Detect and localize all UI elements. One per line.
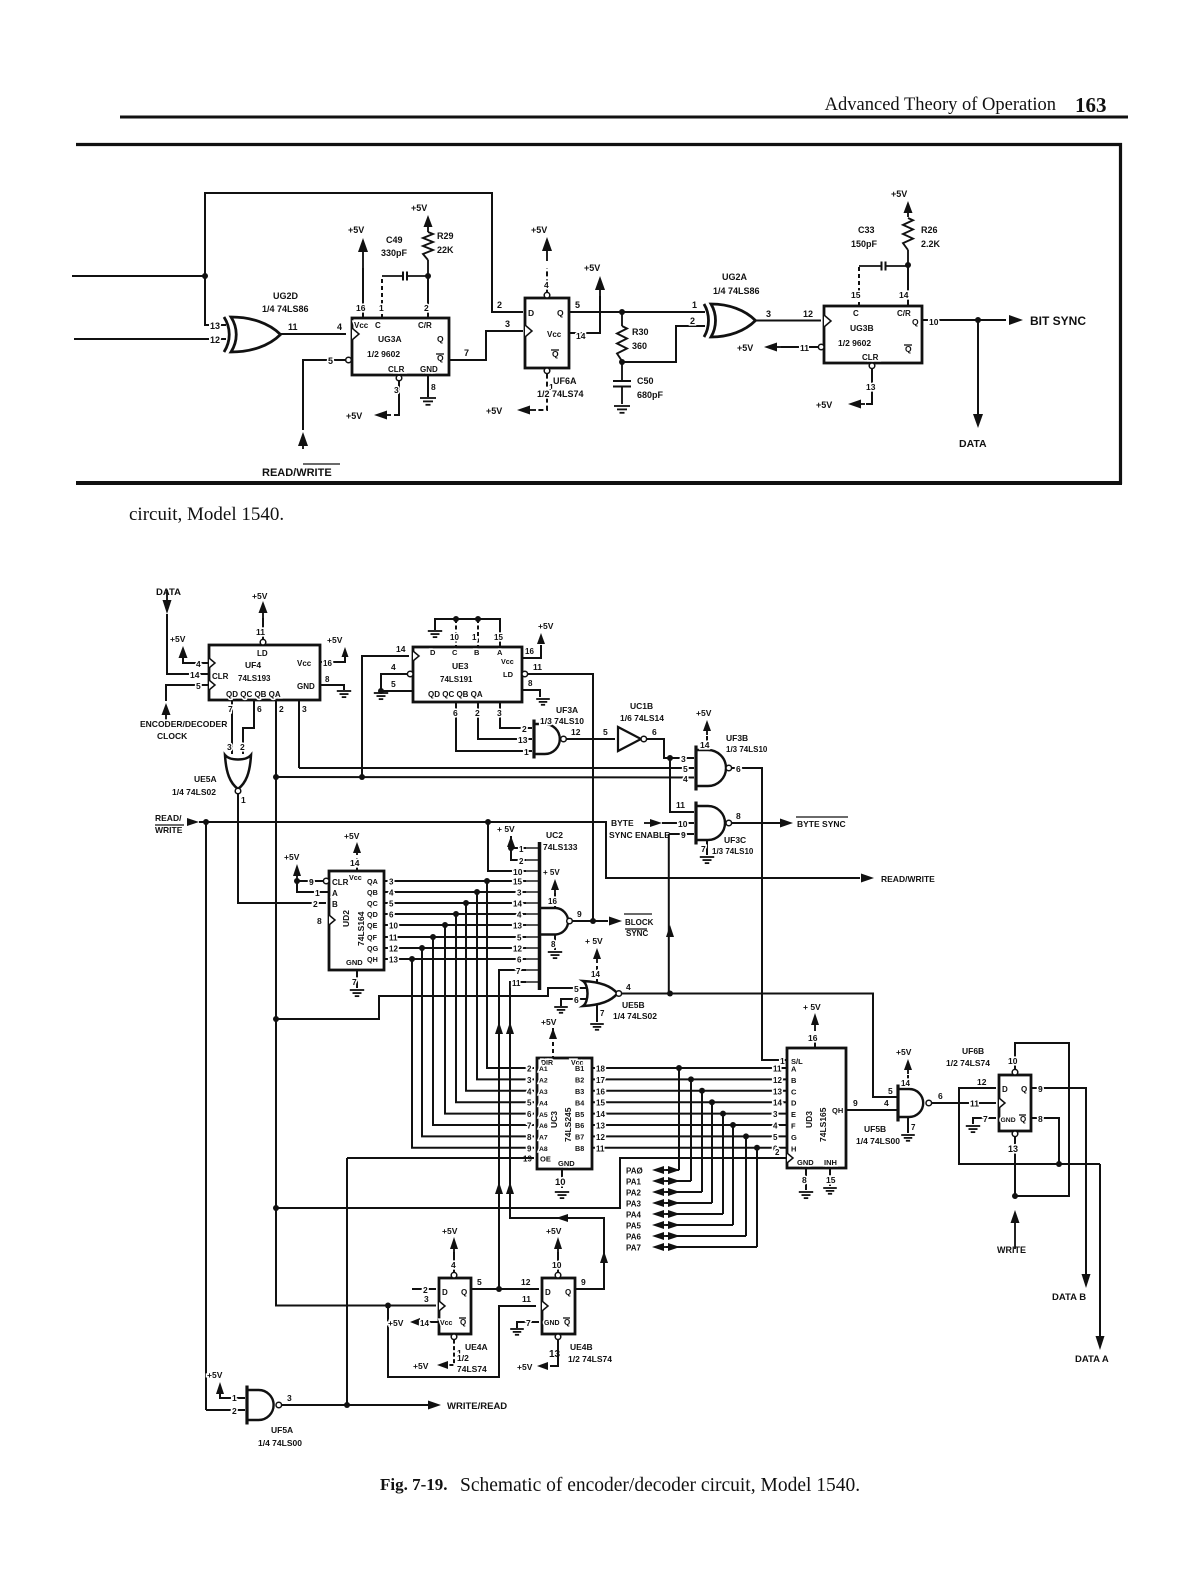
svg-text:330pF: 330pF [381,248,408,258]
svg-text:+5V: +5V [816,400,832,410]
svg-text:13: 13 [1008,1144,1018,1154]
pin 6 label UE5B [574,995,579,1005]
junction QB line [273,774,279,780]
pin 11 label UD2 QF [389,934,398,943]
wire UD2 pin9 from +5V [297,880,323,882]
ground UE3 pin8 [536,699,550,705]
svg-text:A3: A3 [539,1089,548,1096]
wire UE4B pin7 [517,1322,539,1328]
svg-text:A: A [332,889,338,898]
ground UF3C pin7 [700,857,714,863]
svg-text:QD QC QB QA: QD QC QB QA [428,690,483,699]
pin 7 label UC2 [516,967,521,976]
pin 5 label UC1B in [603,727,608,737]
svg-text:5: 5 [603,727,608,737]
+5V arrow UF4 pin4 [179,646,188,664]
direction arrow UC2 pin7 net upper [495,1022,503,1034]
pin 16 label UF4 [323,659,332,668]
svg-text:C/R: C/R [897,309,911,318]
svg-text:1: 1 [379,303,384,313]
bubble UG3B pin11 [818,344,824,350]
header rule [120,116,1128,119]
bubble UC2 out [567,918,573,924]
bubble UF3A out [561,736,567,742]
svg-text:14: 14 [596,1110,605,1119]
pin 14 label UE3 [396,644,406,654]
svg-text:4: 4 [389,889,394,898]
caption circuit Model 1540 [129,504,284,525]
svg-text:12: 12 [521,1277,531,1287]
wire UF3C pin9 net down to UE5B out [668,834,670,992]
svg-text:2: 2 [690,316,695,326]
wire UC3 B5 to UD3 E [592,1113,787,1115]
svg-text:+5V: +5V [531,225,547,235]
pin 3 label UE3 QA [497,708,502,718]
svg-text:UF5A: UF5A [271,1425,293,1435]
label B1 UC3 [575,1064,584,1073]
svg-text:2: 2 [527,1065,532,1074]
label 74LS245 vertical [563,1107,573,1142]
svg-text:13: 13 [549,1349,561,1360]
svg-text:16: 16 [525,647,534,656]
wire UE4B pin13 down [550,1340,558,1366]
label A1 UC3 [539,1066,548,1073]
BLOCK SYNC arrow [609,917,622,926]
+5V label UE4A pin1 [413,1361,429,1371]
junction QB to UE3 pin14 [359,774,365,780]
bubble UG3A pin3 [396,375,402,381]
svg-text:QA: QA [367,877,378,886]
label UE4B type 1/2 74LS74 [568,1354,612,1364]
label UG3B [850,323,874,333]
svg-text:+5V: +5V [737,343,753,353]
label UC1B [630,701,653,711]
+5V arrow UF6A pin14 [595,276,605,296]
pin 7 label UF6B [983,1114,988,1124]
bubble UE4B pin10 [555,1272,561,1278]
label A7 UC3 [539,1135,548,1142]
figure caption Fig 7-19 [380,1475,860,1496]
svg-text:74LS193: 74LS193 [238,674,271,683]
pin 4 label UF4 [196,659,201,669]
pin 3 label UD2 QA [389,878,394,887]
wire RW net to UF5A pin2 [206,1409,245,1411]
clock triangle UD2 pin8 [329,915,335,925]
pin 14 label UE5B [591,970,600,979]
pin 15 label UC2 [513,878,522,887]
svg-text:+5V: +5V [442,1226,458,1236]
svg-text:+5V: +5V [696,708,712,718]
svg-text:11: 11 [533,662,542,672]
svg-text:4: 4 [196,659,201,669]
DATA arrow [973,414,983,428]
resistor R26 [903,218,913,265]
wire UF6A pin4 up [546,268,548,292]
svg-text:10: 10 [1008,1056,1018,1066]
junction clock to UE4B jog [385,1303,391,1309]
svg-text:+5V: +5V [517,1362,533,1372]
svg-text:10: 10 [389,922,398,931]
one-shot U G3A box [352,318,449,375]
wire PA5 line [666,1224,733,1226]
svg-text:UC2: UC2 [546,830,563,840]
svg-text:D: D [791,1099,797,1108]
label Q UG3A [437,334,444,344]
DATA input label [156,587,181,598]
svg-text:6: 6 [652,727,657,737]
svg-text:5: 5 [328,356,333,366]
label INH UD3 [824,1158,837,1167]
svg-text:7: 7 [228,704,233,714]
wire UF5B pin14 [907,1075,909,1089]
bubble UF6A pin4 [544,292,550,298]
+5V label UF5B pin14 [896,1047,912,1057]
label GND UD2 [346,958,363,967]
wire BYTE SYNC ENABLE to pin10 [662,822,694,824]
label C UG3B [853,309,859,318]
svg-text:+5V: +5V [584,263,600,273]
svg-text:A4: A4 [539,1100,548,1107]
label UE5A type 1/4 74LS02 [172,787,216,797]
pin stub UC2 at y982 [526,981,538,983]
label Qbar UE4B [563,1318,570,1327]
junction +5V pin9/pin1 [294,878,300,884]
+5V arrow UF5A pin1 [216,1382,224,1398]
svg-text:2: 2 [522,724,527,734]
svg-text:LD: LD [257,649,268,658]
pin stub UC2 at y892 [526,891,538,893]
label 1/2 9602 UG3B [838,338,871,348]
+5V label UD2 pin14 [344,831,360,841]
bus arrows PA1 [652,1177,680,1185]
label R29 [437,231,454,241]
svg-text:15: 15 [851,290,861,300]
svg-text:1/2 9602: 1/2 9602 [838,338,871,348]
wire UE4A pin14 [429,1321,439,1323]
+5V label UE3 pin16 [538,621,554,631]
label D UE4B [545,1288,551,1297]
pin 1 label UF5A [232,1393,237,1403]
svg-text:D: D [1002,1085,1008,1094]
wire UF3A out to UC1B [566,738,615,740]
svg-text:11: 11 [970,1099,979,1109]
svg-text:6: 6 [527,1110,532,1119]
wire UF6A pin1 down [536,374,547,410]
svg-text:UG3A: UG3A [378,334,402,344]
pin 5 label UF5B [888,1086,893,1096]
svg-text:1: 1 [472,633,477,642]
svg-text:5: 5 [574,984,579,994]
svg-text:8: 8 [1038,1114,1043,1124]
label PA2 [626,1189,642,1198]
bus arrows PA2 [652,1188,680,1196]
svg-text:UF6A: UF6A [553,376,577,386]
pin 8 label UD3 [802,1175,807,1185]
svg-text:C49: C49 [386,235,403,245]
+5V arrow UG3A pin16 [358,238,368,268]
DATA B arrow [1082,1274,1091,1288]
svg-text:Vcc: Vcc [440,1320,453,1327]
label PA1 [626,1178,642,1187]
label UC2 [546,830,563,840]
pin stub UC2 at y959 [526,958,538,960]
svg-text:UF4: UF4 [245,660,261,670]
svg-text:2.2K: 2.2K [921,239,941,249]
pin 8 label UF4 [325,675,330,684]
bubble UF5A out [276,1402,282,1408]
wire PA1 line [666,1180,691,1182]
+5V arrow UG3B pin13 [848,400,865,409]
svg-text:11: 11 [800,343,809,353]
wire input B to UG2D pin 12 [74,338,226,340]
clock triangle UE4A [439,1301,445,1311]
pin 8 label UF6B Qbar [1038,1114,1043,1124]
ground UD2 pin7 [350,990,364,996]
label DIR UC3 [541,1060,553,1067]
pin 2 label UF5A [232,1406,237,1416]
svg-text:Q: Q [1021,1085,1027,1094]
+5V label UE5B pin14 [585,936,603,946]
wire UG3A pin8 down [427,375,429,397]
svg-text:4: 4 [517,911,522,920]
junction PA0 tap [676,1065,682,1071]
svg-text:UD3: UD3 [804,1111,814,1128]
pin 3 label UG3A bottom [394,385,399,395]
label Q UG3B [912,317,919,327]
svg-text:11: 11 [773,1065,782,1074]
label UE5A [194,774,217,784]
pin 5 label UF3B [683,764,688,774]
label UG2D [273,291,299,301]
pin stub UC2 at y860 [526,859,538,861]
pin 5 label UG3A [328,356,333,366]
junction QH to UC3 [409,956,415,962]
+5V label UC2 pin16 [543,868,560,877]
label Vcc UF4 [297,659,312,668]
svg-text:4: 4 [683,774,688,784]
label S/L UD3 [791,1057,803,1066]
+5V arrow UG3B pin11 [764,343,781,352]
wire UF4 QD pin7 down [231,700,233,754]
svg-text:BIT SYNC: BIT SYNC [1030,314,1086,328]
svg-text:C: C [452,648,458,657]
junction QG to UC3 [419,945,425,951]
wire +5V to UC2 pin2 [511,848,526,860]
label PA6 [626,1233,642,1242]
svg-text:A8: A8 [539,1146,548,1153]
pin 8 label UF3C out [736,811,741,821]
svg-text:14: 14 [350,858,360,868]
pin 10 label UD2 QE [389,922,398,931]
svg-text:7: 7 [701,844,706,854]
svg-text:13: 13 [389,956,398,965]
svg-text:B: B [791,1076,797,1085]
svg-text:11: 11 [522,1294,531,1304]
svg-text:+5V: +5V [411,203,427,213]
pin 5 label UC3 A4 [527,1099,532,1108]
nand gate UF3A [534,720,560,759]
pin 12 label UF6B [977,1077,987,1087]
label B UE3 [474,648,480,657]
label UG2D type 1/4 74LS86 [262,304,309,314]
pin 5 label UD2 QC [389,900,394,909]
+5V arrow R29 [424,215,433,232]
+5V arrow UE4A pin14 [410,1318,420,1326]
pin 12 label UF3A out [571,727,581,737]
wire UF6A Q5 to UG2A in1 [569,311,705,313]
wire junction down to UF3C pin11 [670,758,694,812]
svg-text:14: 14 [576,331,586,341]
label QC UD2 [367,899,378,908]
label UF5B type 1/4 74LS00 [856,1136,900,1146]
bubble UE3 pin4 G [407,671,413,677]
svg-text:PA7: PA7 [626,1244,642,1253]
label QB UD2 [367,888,378,897]
label Qbar UF6B [1019,1115,1026,1124]
pin 14 label UD2 [350,858,360,868]
svg-text:CLR: CLR [862,353,879,362]
pin 2 label UF6A D [497,300,502,310]
pin 13 label UC2 [513,922,522,931]
wire QG down to UC3 A7 [422,948,534,1136]
pin 4 label UE3 [391,662,396,672]
svg-text:CLOCK: CLOCK [157,731,188,741]
svg-text:UE5A: UE5A [194,774,217,784]
svg-text:1/4 74LS02: 1/4 74LS02 [172,787,216,797]
svg-text:163: 163 [1075,93,1107,117]
svg-text:8: 8 [325,675,330,684]
svg-text:11: 11 [596,1144,605,1153]
svg-text:WRITE: WRITE [997,1245,1026,1255]
capacitor C50 [613,362,631,404]
+5V arrow R26 [904,201,913,217]
svg-text:12: 12 [210,335,220,345]
svg-text:13: 13 [773,1087,782,1096]
junction UE3 pin5/gnd [378,688,384,694]
label D UD3 [791,1099,797,1108]
pin 1 label UF6A [549,382,554,392]
wire clock to UF4 pin5 [166,685,209,701]
svg-text:5: 5 [391,679,396,689]
pin 11 label UE4B [522,1294,531,1304]
svg-text:3: 3 [773,1110,778,1119]
junction QF to UC3 [430,934,436,940]
svg-text:PA2: PA2 [626,1189,642,1198]
label R30 value 360 [632,341,647,351]
pin 7 label UD2 [352,977,357,987]
pin 12 label UE4B D [521,1277,531,1287]
svg-text:QC: QC [367,899,378,908]
label C49 [386,235,403,245]
pin 13 label UD3 C [773,1087,782,1096]
wire UF6B Q to DATA B [1031,1088,1086,1274]
WRITE/READ label [447,1401,507,1412]
wire QC down to UC3 A3 [466,903,534,1091]
svg-text:CLR: CLR [212,672,229,681]
svg-text:7: 7 [526,1318,531,1328]
svg-text:Vcc: Vcc [349,873,362,882]
svg-text:Q: Q [437,334,444,344]
pin 8 label UC2 [551,940,556,949]
svg-text:READ/WRITE: READ/WRITE [262,467,332,479]
svg-text:6: 6 [736,764,741,774]
svg-text:+5V: +5V [541,1017,557,1027]
pin 4 label UE5B out [626,982,631,992]
svg-text:8: 8 [528,679,533,688]
wire UD2 QD to UC2 pin 4 [384,913,526,915]
+5V arrow UF6A pin4 [542,237,552,261]
svg-text:UF3C: UF3C [724,835,746,845]
READ/WRITE left label [155,813,184,835]
wire PA3 line [666,1202,712,1204]
+5V label UG3A pin16 [348,225,364,235]
label QF UD2 [367,933,378,942]
wire jog to UE4B pin11 [388,1306,536,1378]
wire UE4A pin1 down [448,1340,454,1365]
svg-text:2: 2 [475,708,480,718]
wire UC3 B7 to UD3 G [592,1135,787,1137]
pin 7 label UG3A Q [464,348,469,358]
label Qbar UE4A [459,1318,466,1327]
wire UC3 B3 to UD3 C [592,1090,787,1092]
wire UF4 QA pin3 down [298,700,300,768]
+5V label UC2 pins1-2 [497,824,515,834]
+5V arrow UF4 pin11 [259,601,268,619]
svg-text:GND: GND [420,365,438,374]
pin 5 label UE4A Q [477,1277,482,1287]
BYTE SYNC ENABLE label [609,818,670,840]
+5V label UF6A pin4 [531,225,547,235]
shift register UD2 box [329,871,384,970]
ground UD3 pin15 [823,1188,837,1194]
direction arrow UC2 pin11 net lower [506,1182,514,1194]
label Q UF6A [557,308,564,318]
pin 17 label UC3 B2 [596,1076,605,1085]
label QA UD2 [367,877,378,886]
svg-text:SYNC ENABLE: SYNC ENABLE [609,830,670,840]
svg-text:22K: 22K [437,245,454,255]
pin 13 label UE4B [549,1349,561,1360]
flip-flop UF6B box [999,1075,1031,1131]
bus transceiver UC3 box [537,1058,592,1169]
svg-text:14: 14 [700,740,710,750]
clock triangle UG3A pin4 [352,328,359,340]
counter UE3 box [413,647,522,702]
svg-text:1/4 74LS86: 1/4 74LS86 [262,304,309,314]
wire UF6B pin10 feedback [1015,1043,1069,1196]
ground UC3 pin10 [555,1192,569,1198]
pin 6 label UD2 QD [389,911,394,920]
wire UE5B pin6 to gnd [561,999,586,1006]
bus arrows PA3 [652,1199,680,1207]
wire UF4 QC pin6 jog to UE5A [243,700,254,754]
wire UC1B out to UF3B pin3 [647,739,694,758]
svg-text:4: 4 [337,322,342,332]
wire node A up and across to UF6A D [205,193,523,312]
wire RW to UC2 pin10 [488,822,526,871]
+5V label UF6A pin1 [486,406,502,416]
pin 11 label UE3 [533,662,542,672]
wire UF5A out net vertical [346,1158,348,1404]
wire UF3C out to BYTE SYNC [732,822,780,824]
wire UE3 QA to UF3A pin2 [500,702,532,728]
wire +5V to UF5A pin1 [220,1394,245,1398]
pin 1 label UE4A [457,1348,462,1358]
wire RW vertical to UF5A [205,822,207,1410]
READ/WRITE input label [262,464,340,479]
svg-text:14: 14 [901,1079,910,1088]
svg-text:7: 7 [464,348,469,358]
